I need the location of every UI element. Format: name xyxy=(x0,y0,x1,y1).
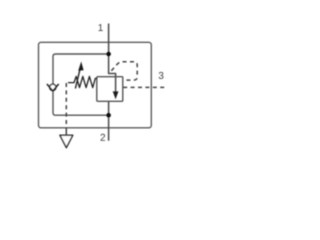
wire port 1 vertical with jog into valve xyxy=(109,24,116,92)
check valve ball (circle) xyxy=(50,84,56,90)
wire port 2 vertical xyxy=(108,101,110,140)
spring adjustment arrowhead xyxy=(78,62,83,71)
valve body square xyxy=(97,77,123,102)
pilot dashed loop (top) xyxy=(111,62,137,80)
drain stub to tank xyxy=(65,128,67,135)
label port 3 xyxy=(159,72,164,79)
label port 2 xyxy=(101,134,106,141)
check valve seat (V) xyxy=(47,84,59,91)
internal flow arrow (down) xyxy=(113,91,119,99)
outer enclosure box xyxy=(39,42,152,128)
pilot drain dashed line xyxy=(65,83,67,128)
junction dot bottom xyxy=(106,113,111,118)
pilot port 3 dashed line xyxy=(123,86,164,88)
inner bypass line (C shape with check valve) xyxy=(53,54,109,115)
label port 1 xyxy=(99,24,103,31)
spring adjustment arrow shaft xyxy=(75,68,80,89)
spring (zigzag) xyxy=(68,76,97,87)
junction dot top xyxy=(106,52,111,57)
tank/atmosphere triangle xyxy=(60,135,73,147)
